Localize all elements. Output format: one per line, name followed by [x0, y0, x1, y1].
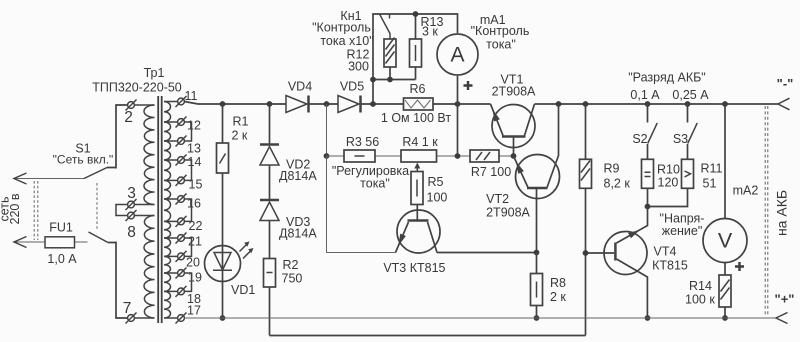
- pin 20 terminal: [164, 255, 178, 257]
- node ammeter return: [455, 101, 461, 107]
- svg-text:жение": жение": [662, 224, 703, 238]
- svg-text:"+": "+": [775, 292, 795, 307]
- switch S1 pole 1: [84, 168, 107, 179]
- wire mains line top with arrow: [14, 178, 84, 180]
- resistor R14: [719, 275, 731, 307]
- svg-text:2Т908А: 2Т908А: [492, 85, 536, 99]
- potentiometer R4: [401, 150, 437, 162]
- pin 18 terminal: [164, 290, 178, 292]
- svg-text:R8: R8: [550, 276, 566, 290]
- led VD1: [222, 173, 224, 318]
- svg-text:VD4: VD4: [288, 80, 312, 94]
- switch S1 pole 2: [89, 232, 109, 243]
- svg-text:15: 15: [189, 178, 203, 192]
- primary winding section 1: [134, 104, 154, 106]
- svg-text:на АКБ: на АКБ: [774, 190, 790, 236]
- svg-text:тока": тока": [360, 177, 390, 191]
- svg-text:КТ815: КТ815: [652, 258, 688, 272]
- svg-text:"-": "-": [777, 76, 794, 91]
- svg-text:ТПП320-220-50: ТПП320-220-50: [92, 81, 182, 95]
- wire row left vertical: [327, 156, 396, 253]
- wire link pins 122-141: [184, 122, 191, 141]
- secondary winding: [164, 102, 171, 319]
- node row mid: [455, 153, 461, 159]
- wire bottom rail 2: [270, 335, 586, 337]
- svg-text:120: 120: [658, 176, 679, 190]
- node R13 top: [413, 11, 419, 17]
- svg-text:1,0 А: 1,0 А: [47, 252, 77, 266]
- svg-text:"Сеть вкл.": "Сеть вкл.": [53, 153, 114, 167]
- node VT4 base: [583, 250, 589, 256]
- zener VD3: [269, 221, 271, 259]
- svg-text:220 в: 220 в: [8, 193, 22, 224]
- svg-text:R7 100: R7 100: [471, 165, 511, 179]
- svg-text:R6: R6: [410, 82, 426, 96]
- resistor R6: [404, 98, 434, 110]
- resistor R9: [585, 104, 587, 159]
- node VT2 base R8: [534, 250, 540, 256]
- svg-text:0,25 А: 0,25 А: [672, 88, 709, 102]
- pin 7 terminal: [128, 315, 135, 322]
- wire mains line bottom with arrow: [14, 241, 88, 243]
- pin 19 terminal: [164, 272, 178, 274]
- resistor R12: [389, 34, 391, 40]
- svg-text:"Контроль: "Контроль: [471, 24, 530, 38]
- svg-text:20: 20: [186, 256, 200, 270]
- voltmeter mA2: [724, 104, 726, 219]
- diode VD5: [338, 96, 359, 113]
- svg-text:2 к: 2 к: [232, 129, 248, 143]
- svg-text:FU1: FU1: [49, 221, 73, 235]
- svg-text:100 к: 100 к: [685, 292, 715, 306]
- svg-text:"Контроль: "Контроль: [312, 21, 371, 35]
- resistor R2: [264, 259, 276, 288]
- node VT2 collector: [556, 101, 562, 107]
- svg-text:8,2 к: 8,2 к: [604, 176, 631, 190]
- button Kn1: [380, 14, 391, 34]
- svg-text:тока": тока": [486, 38, 516, 52]
- resistor R1: [222, 104, 224, 143]
- terminal plus: [776, 313, 788, 324]
- terminal minus: [778, 98, 790, 110]
- svg-text:17: 17: [187, 304, 201, 318]
- svg-text:mA2: mA2: [733, 183, 759, 197]
- svg-text:2: 2: [124, 109, 133, 126]
- svg-text:"Разряд АКБ": "Разряд АКБ": [628, 70, 706, 84]
- svg-text:51: 51: [703, 176, 717, 190]
- node R9 top: [583, 101, 589, 107]
- wire row: [327, 155, 514, 157]
- svg-text:R1: R1: [233, 115, 249, 129]
- svg-text:Д814А: Д814А: [279, 169, 317, 183]
- node R14 bottom: [722, 315, 728, 321]
- transistor VT2: [516, 155, 560, 199]
- resistor R8: [531, 274, 543, 306]
- pin 8 terminal: [128, 212, 135, 219]
- svg-text:0,1 А: 0,1 А: [630, 88, 660, 102]
- node R1 top: [220, 101, 226, 107]
- transistor VT1: [492, 105, 535, 148]
- wire link pins 160-180: [184, 160, 191, 180]
- wire top rail right part: [535, 103, 779, 105]
- svg-text:14: 14: [188, 155, 202, 169]
- svg-text:R4 1 к: R4 1 к: [402, 135, 438, 149]
- svg-text:R2: R2: [283, 258, 299, 272]
- transistor VT4: [604, 232, 647, 275]
- svg-text:750: 750: [282, 272, 303, 286]
- zener VD2: [269, 104, 271, 200]
- svg-text:R9: R9: [604, 161, 620, 175]
- wire link pins 238-256: [184, 238, 191, 256]
- pin 11 terminal: [164, 101, 178, 103]
- resistor R13: [415, 14, 417, 39]
- svg-text:R14: R14: [689, 279, 712, 293]
- svg-text:VD5: VD5: [340, 80, 364, 94]
- cable dashed pair: [34, 181, 38, 240]
- svg-text:100: 100: [427, 191, 448, 205]
- svg-text:2 к: 2 к: [550, 290, 566, 304]
- wire top rail left part: [184, 102, 490, 105]
- node jumper left: [370, 77, 376, 83]
- pin 17 terminal: [164, 317, 178, 319]
- wire ammeter node to row: [457, 104, 459, 156]
- svg-text:21: 21: [188, 235, 202, 249]
- svg-text:VT4: VT4: [654, 244, 677, 258]
- svg-text:Д814А: Д814А: [279, 227, 317, 241]
- node S2 top: [645, 101, 651, 107]
- switch S1 link dashed: [96, 183, 98, 230]
- svg-text:300: 300: [348, 59, 369, 73]
- resistor R3: [344, 150, 375, 162]
- transistor VT3: [397, 210, 440, 253]
- wire strap pins 3-8: [116, 205, 128, 216]
- pin 12 terminal: [164, 121, 178, 123]
- node R8 bottom: [534, 315, 540, 321]
- svg-text:Тр1: Тр1: [144, 66, 165, 80]
- node S3 top: [685, 101, 691, 107]
- svg-text:11: 11: [185, 89, 198, 103]
- resistor R5: [411, 172, 423, 205]
- svg-text:А: А: [450, 44, 464, 67]
- node R12 bottom: [387, 77, 393, 83]
- pin 21 terminal: [164, 237, 178, 239]
- node VT4 collector bottom: [645, 315, 651, 321]
- svg-text:3: 3: [127, 185, 136, 202]
- switch S2: [647, 104, 649, 123]
- wire Kn1 branch: [373, 14, 458, 104]
- wire VT3 collector to VT2 base: [437, 252, 537, 254]
- node voltage divider: [645, 204, 651, 210]
- svg-text:VD1: VD1: [231, 283, 255, 297]
- primary winding section 2: [134, 215, 154, 217]
- svg-text:S2: S2: [632, 132, 647, 146]
- wire bottom rail: [184, 317, 776, 319]
- diode VD4: [286, 96, 307, 113]
- svg-text:V: V: [718, 229, 733, 253]
- switch S3: [687, 104, 689, 123]
- svg-text:3 к: 3 к: [422, 24, 438, 38]
- svg-text:13: 13: [187, 142, 201, 156]
- svg-text:R3 56: R3 56: [346, 135, 379, 149]
- node VD1 bottom: [220, 315, 226, 321]
- transformer core: [157, 96, 159, 323]
- fuse FU1: [45, 237, 75, 248]
- pin 2 terminal: [128, 102, 135, 109]
- node Kn1 branch: [370, 101, 376, 107]
- svg-text:R10: R10: [657, 163, 680, 177]
- wire link pins 199-221: [184, 199, 191, 221]
- cable to battery dashed: [765, 106, 768, 316]
- svg-text:S3: S3: [673, 132, 688, 146]
- resistor R10: [642, 159, 654, 188]
- node voltmeter branch: [722, 101, 728, 107]
- node VT1 base: [511, 153, 517, 159]
- pin 15 terminal: [164, 179, 178, 181]
- svg-text:VT3 КТ815: VT3 КТ815: [383, 261, 445, 275]
- pin 14 terminal: [164, 159, 178, 161]
- svg-text:12: 12: [187, 119, 201, 133]
- svg-text:R5: R5: [428, 175, 444, 189]
- node between VD4 VD5: [324, 101, 330, 107]
- ammeter mA1: [437, 34, 478, 75]
- svg-text:VT2: VT2: [486, 192, 509, 206]
- node VD2 top: [267, 101, 273, 107]
- svg-text:8: 8: [127, 224, 136, 241]
- svg-text:7: 7: [123, 300, 132, 317]
- pin 3 terminal: [128, 201, 135, 208]
- wire rail to row: [326, 104, 328, 156]
- svg-text:R11: R11: [701, 161, 723, 175]
- pin 16 terminal: [164, 198, 178, 200]
- wire link pins 273-291: [184, 273, 191, 291]
- pin 22 terminal: [164, 220, 178, 222]
- node row left: [324, 153, 330, 159]
- pin 13 terminal: [164, 140, 178, 142]
- svg-text:1 Ом 100 Вт: 1 Ом 100 Вт: [381, 111, 451, 125]
- resistor R11: [682, 159, 694, 188]
- wire Kn1 bottom jumper: [373, 79, 416, 81]
- resistor R7: [470, 150, 499, 162]
- svg-text:2Т908А: 2Т908А: [486, 205, 530, 219]
- svg-text:тока х10": тока х10": [320, 34, 373, 48]
